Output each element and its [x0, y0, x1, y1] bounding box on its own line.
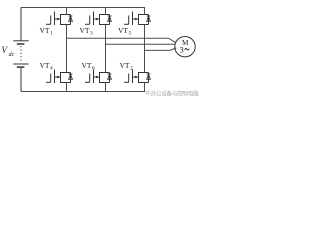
svg-text:5: 5 [129, 31, 132, 37]
transistor VT4 [46, 70, 71, 84]
label VT1 [40, 26, 54, 37]
wire VT5 drain to top bus [144, 8, 146, 15]
svg-text:3: 3 [180, 45, 184, 54]
svg-text:办公设备与控制电路: 办公设备与控制电路 [151, 89, 199, 97]
body diode of VT3 [108, 15, 112, 25]
bottom DC bus wire [21, 91, 145, 93]
body diode of VT2 [147, 73, 151, 83]
wire battery middle (dotted) [20, 46, 22, 62]
battery Vdc [13, 8, 28, 92]
battery cell 1 negative plate [17, 43, 25, 45]
body diode of VT4 [69, 73, 73, 83]
svg-text:VT: VT [118, 26, 128, 35]
transistor VT6 [85, 70, 110, 84]
transistor VT2 [124, 70, 149, 84]
label VT6 [82, 61, 96, 72]
battery cell 2 negative plate [17, 66, 25, 68]
wire VT6 source to bottom bus [105, 83, 107, 92]
label Vdc [2, 45, 15, 58]
svg-text:6: 6 [92, 66, 95, 72]
battery cell 2 positive plate [13, 63, 28, 65]
wire VT1 drain to top bus [66, 8, 68, 15]
wire leg B midpoint [105, 25, 107, 73]
svg-text:VT: VT [82, 61, 92, 70]
body diode of VT6 [108, 73, 112, 83]
label VT2 [120, 61, 134, 72]
wire battery top lead [20, 8, 22, 41]
svg-text:VT: VT [80, 26, 90, 35]
svg-text:1: 1 [50, 31, 53, 37]
body diode of VT5 [147, 15, 151, 25]
svg-text:VT: VT [120, 61, 130, 70]
body diode of VT1 [69, 15, 73, 25]
wire VT4 source to bottom bus [66, 83, 68, 92]
watermark [146, 89, 199, 97]
svg-text:VT: VT [40, 26, 50, 35]
svg-text:VT: VT [40, 61, 50, 70]
wire leg C midpoint [144, 25, 146, 73]
label VT4 [40, 61, 54, 72]
svg-text:2: 2 [130, 66, 133, 72]
transistor VT1 [46, 12, 71, 26]
wire battery bottom lead [20, 68, 22, 92]
transistor VT3 [85, 12, 110, 26]
motor M [175, 37, 195, 57]
transistor VT5 [124, 12, 149, 26]
label VT3 [80, 26, 94, 37]
svg-text:4: 4 [50, 66, 53, 72]
svg-text:dc: dc [9, 52, 15, 58]
wire leg A midpoint [66, 25, 68, 73]
phase wire C to motor [145, 48, 177, 51]
label VT5 [118, 26, 132, 37]
wire VT2 source to bottom bus [144, 83, 146, 92]
wire VT3 drain to top bus [105, 8, 107, 15]
top DC bus wire [21, 7, 145, 9]
svg-text:3: 3 [90, 31, 93, 37]
battery cell 1 positive plate [13, 40, 28, 42]
phase wire A to motor [67, 38, 177, 43]
phase wire B to motor [106, 43, 176, 45]
